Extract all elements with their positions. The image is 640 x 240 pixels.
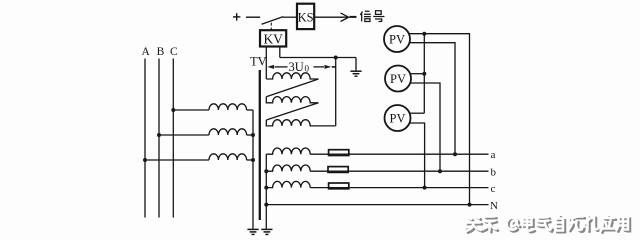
node junction line b drop bbox=[438, 169, 442, 173]
svg-text:KS: KS bbox=[298, 10, 314, 24]
wire PV common vertical bbox=[423, 34, 425, 114]
wire KV right terminal horizontal to earth bbox=[280, 57, 356, 59]
switch KV contact blade bbox=[262, 17, 284, 25]
inductor open-delta winding 3 bbox=[266, 120, 335, 126]
svg-text:a: a bbox=[491, 149, 496, 161]
wire bus A vertical bbox=[144, 59, 146, 218]
wire PV2 top terminal bbox=[410, 73, 424, 75]
node junction line a drop bbox=[453, 152, 457, 156]
switch KV contact dashed link bbox=[270, 23, 272, 31]
node junction open-delta top bbox=[334, 56, 338, 60]
wire open-delta diagonal 2 bbox=[266, 103, 318, 120]
wire A phase branch to primary winding bbox=[145, 159, 209, 161]
ground primary star bbox=[247, 229, 258, 234]
relay KV box bbox=[260, 30, 286, 46]
svg-text:C: C bbox=[170, 46, 178, 58]
voltmeter PV3 bbox=[385, 105, 411, 131]
wire line c bbox=[310, 187, 488, 189]
label signal text 信号 bbox=[360, 11, 384, 22]
node junction secondary star c bbox=[264, 186, 268, 190]
wire PV3 top terminal bbox=[410, 112, 425, 114]
wire KV left terminal down to open-delta winding bbox=[265, 47, 267, 80]
wire primary B to star point bbox=[247, 134, 253, 136]
wire open-delta right end up bbox=[335, 58, 337, 126]
inductor open-delta winding 1 bbox=[266, 73, 318, 79]
svg-text:PV: PV bbox=[390, 72, 406, 86]
wire B phase branch to primary winding bbox=[159, 134, 209, 136]
node junction B branch bbox=[157, 133, 161, 137]
wire KV right terminal down bbox=[279, 47, 281, 58]
wire line b bbox=[310, 170, 488, 172]
relay KS box bbox=[297, 4, 314, 29]
fuse FU1 bbox=[329, 150, 349, 156]
wire secondary star vertical to ground bbox=[265, 154, 267, 228]
node junction primary star B bbox=[251, 133, 255, 137]
wire PV2 bottom terminal to line b bbox=[410, 83, 440, 171]
svg-text:B: B bbox=[157, 46, 165, 58]
wire open-delta diagonal 1 bbox=[266, 79, 318, 97]
svg-text:N: N bbox=[490, 200, 498, 212]
svg-text:3U: 3U bbox=[289, 60, 304, 74]
wire KS to signal arrow bbox=[314, 16, 347, 18]
wire primary star point vertical to ground bbox=[252, 110, 254, 229]
inductor TV primary winding A bbox=[209, 154, 247, 160]
node junction A branch bbox=[143, 158, 147, 162]
label 3Uo measurement right arrow bbox=[314, 66, 325, 68]
node junction neutral tap bbox=[264, 203, 268, 207]
wire signal arrowhead bbox=[341, 13, 349, 22]
voltmeter PV1 bbox=[384, 26, 410, 52]
inductor TV primary winding C bbox=[209, 104, 247, 110]
fuse FU2 bbox=[328, 167, 348, 173]
node junction line c drop bbox=[423, 186, 427, 190]
wire PV1 top terminal to N drop bbox=[409, 34, 469, 205]
inductor TV primary winding B bbox=[209, 129, 247, 135]
control supply plus symbol bbox=[233, 13, 240, 20]
node junction PV1 top common bbox=[422, 32, 426, 36]
wire signal dash bbox=[350, 16, 357, 18]
svg-text:KV: KV bbox=[263, 31, 283, 46]
wire line N bbox=[266, 204, 488, 206]
ground top right bbox=[350, 71, 361, 76]
label 3Uo measurement left arrow bbox=[275, 66, 288, 68]
node junction secondary star b bbox=[264, 169, 268, 173]
node junction C branch bbox=[171, 108, 175, 112]
inductor open-delta winding 2 bbox=[266, 97, 318, 103]
svg-text:A: A bbox=[142, 46, 151, 58]
inductor secondary winding c bbox=[266, 181, 310, 187]
node junction N drop bbox=[468, 203, 472, 207]
node junction primary star A bbox=[251, 158, 255, 162]
voltmeter PV2 bbox=[385, 66, 411, 92]
fuse FU3 bbox=[329, 183, 349, 189]
wire contact to KS bbox=[283, 16, 297, 18]
svg-text:PV: PV bbox=[389, 32, 405, 46]
wire primary A to star point bbox=[247, 159, 253, 161]
wire primary C to star point bbox=[247, 109, 253, 111]
wire line a bbox=[310, 153, 488, 155]
svg-text:0: 0 bbox=[305, 64, 310, 74]
inductor secondary winding a bbox=[266, 148, 310, 154]
wire earth stub top right bbox=[355, 58, 357, 71]
svg-text:b: b bbox=[491, 166, 497, 178]
wire bus C vertical bbox=[172, 59, 174, 218]
transformer TV core bbox=[259, 70, 261, 220]
svg-text:TV: TV bbox=[250, 55, 267, 69]
svg-text:c: c bbox=[491, 183, 496, 195]
wire PV3 bottom terminal to line c bbox=[410, 123, 425, 188]
svg-text:PV: PV bbox=[390, 111, 406, 125]
wire bus B vertical bbox=[158, 59, 160, 218]
node junction PV2 top common bbox=[422, 72, 426, 76]
wire C phase branch to primary winding bbox=[173, 109, 209, 111]
inductor secondary winding b bbox=[266, 165, 310, 171]
wire control supply dash bbox=[246, 16, 260, 18]
ground secondary star bbox=[261, 229, 272, 234]
watermark 头条@电气自动化应用 bbox=[465, 216, 630, 233]
wire PV1 bottom terminal to line a bbox=[409, 43, 455, 155]
